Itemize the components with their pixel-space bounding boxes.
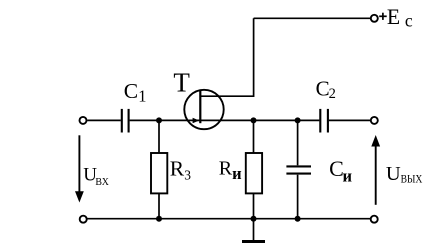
terminal output right [371,117,378,124]
svg-text:3: 3 [184,168,191,183]
svg-text:ВХ: ВХ [95,177,109,188]
svg-text:1: 1 [138,87,146,106]
transistor T channel bar [199,91,201,123]
wire input to C1 [87,119,121,121]
wire C2 to output terminal [329,119,370,121]
wire ground stub [253,219,255,240]
node junction Cи bottom [295,216,301,222]
transistor T gate arrow [193,118,200,123]
svg-text:и: и [232,164,242,183]
capacitor Cи [286,166,311,173]
terminal input top-left [80,117,87,124]
label +Ec [379,15,387,17]
capacitor C1 [122,109,129,133]
wire Rи branch [253,120,255,153]
resistor Rи [246,153,262,193]
node junction source-Rи [251,117,257,123]
terminal bottom-left [80,216,87,223]
svg-text:R: R [170,157,185,181]
svg-text:E: E [387,5,400,29]
svg-text:и: и [343,166,353,185]
resistor R3 [151,153,167,193]
wire Cи branch [297,120,299,165]
terminal bottom-right [371,216,378,223]
arrow Uвых [371,135,380,205]
wire R3 branch [158,120,160,153]
node junction C1-R3-gate [156,117,162,123]
transistor T circle U1 [184,90,223,129]
wire bottom rail [87,218,370,220]
svg-text:R: R [219,158,233,180]
wire C1 to C2 (gate/source main line) [130,119,320,121]
terminal +Ec [371,15,378,22]
wire top rail to +Ec [254,17,371,19]
svg-text:2: 2 [329,86,336,102]
wire drain vertical [200,18,253,96]
svg-text:C: C [124,79,138,103]
svg-text:с: с [405,10,413,30]
svg-text:ВЫХ: ВЫХ [401,174,423,186]
capacitor C2 [320,109,328,133]
node junction Cи top [295,117,301,123]
ground [242,240,265,243]
node junction Rи-ground [251,216,257,222]
node junction R3 bottom [156,216,162,222]
svg-text:U: U [386,163,401,185]
svg-text:C: C [316,76,330,100]
svg-text:T: T [173,67,190,97]
arrow Uвх [75,135,84,202]
